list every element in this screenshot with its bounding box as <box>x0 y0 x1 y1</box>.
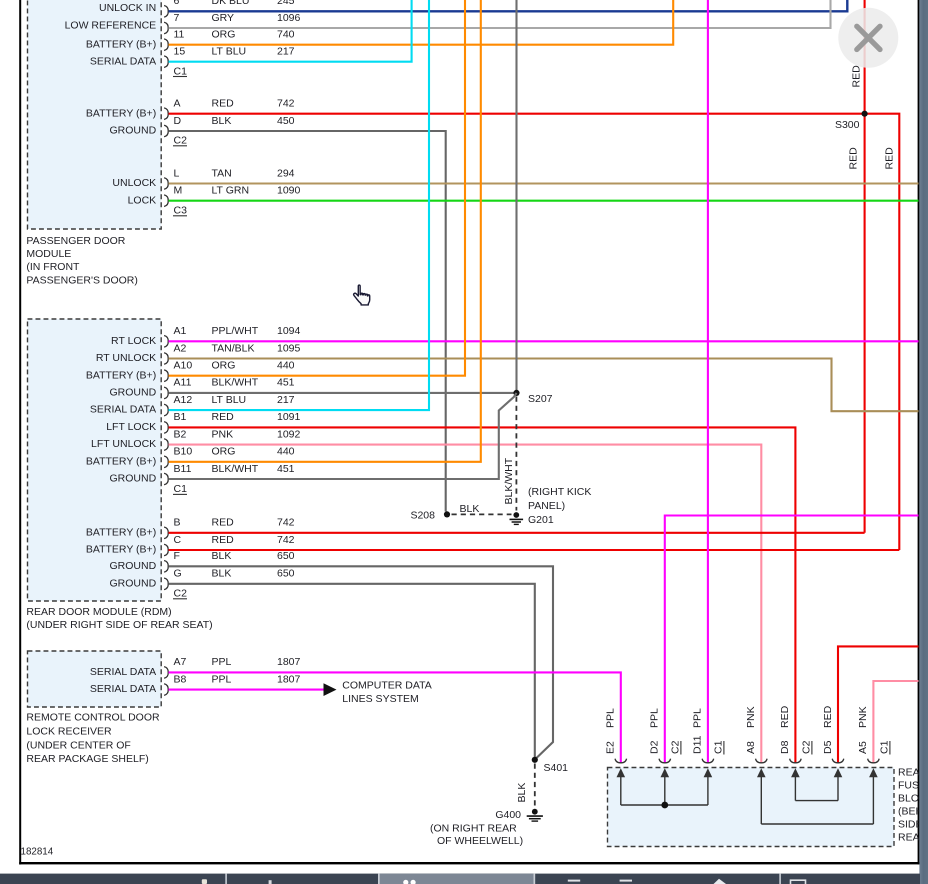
svg-text:F: F <box>174 550 180 562</box>
wire 742 RED: pin C to red vertical 2 <box>169 549 900 551</box>
svg-text:TAN/BLK: TAN/BLK <box>212 342 255 354</box>
wire PNK: from right page edge down to connector A5 <box>873 681 918 763</box>
junction dot on link bar at D2 <box>661 802 668 809</box>
pin bracket G <box>164 578 168 590</box>
remote control door lock receiver box <box>28 651 162 707</box>
wire 1807 PPL: A7 right then down to connector E2 <box>169 672 621 762</box>
svg-text:RED: RED <box>212 517 235 529</box>
svg-text:PASSENGER'S DOOR): PASSENGER'S DOOR) <box>26 274 137 286</box>
svg-text:PPL: PPL <box>649 708 661 728</box>
pin bracket B <box>164 527 168 539</box>
connector label C3 (PDM) <box>173 205 187 217</box>
svg-text:451: 451 <box>277 377 295 389</box>
connector entry D8 RED <box>790 759 802 763</box>
svg-text:1094: 1094 <box>277 325 301 337</box>
svg-text:A5: A5 <box>857 741 869 754</box>
svg-text:SERIAL DATA: SERIAL DATA <box>90 683 156 695</box>
wire RED: from right page edge down to connector D5 <box>838 646 919 762</box>
toolbar icon tops (cut off at bottom edge) <box>202 879 207 884</box>
wire 440 ORG: A10 right then up to top <box>169 0 466 376</box>
svg-text:PPL/WHT: PPL/WHT <box>212 325 259 337</box>
diagram page left border <box>19 0 21 865</box>
svg-text:(UNDER RIGHT SIDE OF REAR SEAT: (UNDER RIGHT SIDE OF REAR SEAT) <box>26 619 212 631</box>
wire 1094 PPL/WHT: A1 to right page edge <box>169 340 919 342</box>
svg-text:S208: S208 <box>410 510 435 522</box>
wire 740 ORG: pin 11 to top <box>169 0 674 45</box>
svg-text:440: 440 <box>277 446 295 458</box>
svg-text:450: 450 <box>277 115 295 127</box>
svg-text:PPL: PPL <box>212 673 232 685</box>
svg-text:GROUND: GROUND <box>110 473 157 485</box>
wire PPL vertical: from top edge down to connector D11 <box>707 0 709 763</box>
pin bracket B11 <box>164 473 168 485</box>
internal link bar E2-D2-D11 <box>621 804 708 806</box>
svg-text:SERIAL DATA: SERIAL DATA <box>90 55 156 67</box>
svg-text:6: 6 <box>174 0 180 7</box>
wire 1096 GRY: pin 7 to top <box>169 0 831 28</box>
diagram page bottom border <box>19 862 920 864</box>
svg-text:LOW REFERENCE: LOW REFERENCE <box>65 20 157 32</box>
svg-text:A: A <box>174 98 181 110</box>
svg-text:B: B <box>174 517 181 529</box>
wire 1807 PPL: B8 to computer data lines arrow <box>169 689 325 691</box>
svg-text:217: 217 <box>277 46 295 58</box>
wire BLK/WHT vertical from top to S207 <box>515 0 517 393</box>
pin bracket 6 <box>164 6 168 18</box>
svg-text:RED: RED <box>212 98 235 110</box>
arrow to A5 <box>872 776 874 825</box>
svg-text:E2: E2 <box>605 741 617 754</box>
svg-text:440: 440 <box>277 360 295 372</box>
wire 440 ORG: B10 right then up to top <box>169 0 481 462</box>
svg-text:A10: A10 <box>174 360 193 372</box>
svg-text:LT BLU: LT BLU <box>212 394 247 406</box>
svg-text:SERIAL DATA: SERIAL DATA <box>90 666 156 678</box>
svg-text:1095: 1095 <box>277 342 301 354</box>
pin bracket B1 <box>164 422 168 434</box>
connector label C1 (A5 group) <box>879 740 891 754</box>
svg-text:LT BLU: LT BLU <box>212 46 247 58</box>
svg-text:D5: D5 <box>822 740 834 754</box>
svg-text:MODULE: MODULE <box>26 248 71 260</box>
svg-text:C2: C2 <box>670 740 682 754</box>
svg-text:650: 650 <box>277 550 295 562</box>
pin bracket F <box>164 561 168 573</box>
svg-text:PPL: PPL <box>212 656 232 668</box>
svg-text:S300: S300 <box>835 119 860 131</box>
svg-text:PPL: PPL <box>692 708 704 728</box>
svg-text:COMPUTER DATA: COMPUTER DATA <box>342 679 431 691</box>
svg-text:B8: B8 <box>174 673 187 685</box>
svg-text:(UNDER CENTER OF: (UNDER CENTER OF <box>26 739 130 751</box>
pin bracket C <box>164 544 168 556</box>
connector label C2 (PDM) <box>173 135 187 147</box>
pin bracket B10 <box>164 456 168 468</box>
dashed BLK lead S208 to G201 <box>452 513 512 515</box>
svg-text:RED: RED <box>822 705 834 728</box>
svg-text:L: L <box>174 167 180 179</box>
svg-text:GROUND: GROUND <box>110 125 157 137</box>
splice S207 <box>513 390 519 396</box>
dashed BLK/WHT lead S207 to G201 <box>515 397 517 511</box>
connector label C1 (RDM) <box>173 483 187 495</box>
splice S208 <box>444 511 450 517</box>
svg-text:ORG: ORG <box>212 29 236 41</box>
svg-text:A2: A2 <box>174 342 187 354</box>
wire 650 BLK: pin G right, down to S401 <box>169 584 535 759</box>
svg-text:RED: RED <box>212 411 235 423</box>
internal link bar D8-D5 <box>795 800 838 802</box>
svg-text:RED: RED <box>884 147 896 170</box>
svg-text:PPL: PPL <box>605 708 617 728</box>
pin bracket M <box>164 195 168 207</box>
passenger door module box (connector C1/C2/C3) <box>28 0 162 229</box>
svg-text:B2: B2 <box>174 428 187 440</box>
svg-text:182814: 182814 <box>21 847 54 858</box>
svg-text:M: M <box>174 185 183 197</box>
svg-text:C2: C2 <box>801 740 813 754</box>
connector entry D2 PPL <box>659 759 671 763</box>
svg-text:BLK/WHT: BLK/WHT <box>212 377 259 389</box>
connector entry D5 RED <box>832 759 844 763</box>
svg-text:742: 742 <box>277 98 295 110</box>
svg-text:451: 451 <box>277 463 295 475</box>
svg-text:C1: C1 <box>174 483 188 495</box>
pin bracket A10 <box>164 370 168 382</box>
svg-text:B10: B10 <box>174 446 193 458</box>
arrow to D8 <box>794 776 796 801</box>
svg-text:D: D <box>174 115 182 127</box>
wire 1092 PNK: B2 right then down to connector A8 <box>169 445 762 763</box>
svg-text:G201: G201 <box>528 514 554 526</box>
svg-text:C2: C2 <box>174 135 188 147</box>
svg-text:ORG: ORG <box>212 446 236 458</box>
svg-text:LFT LOCK: LFT LOCK <box>106 421 156 433</box>
svg-text:1092: 1092 <box>277 428 301 440</box>
pin bracket A12 <box>164 404 168 416</box>
svg-text:G: G <box>174 568 182 580</box>
splice S401 <box>532 757 538 763</box>
svg-text:D2: D2 <box>649 740 661 754</box>
svg-text:SERIAL DATA: SERIAL DATA <box>90 404 156 416</box>
svg-text:GRY: GRY <box>212 12 235 24</box>
svg-text:11: 11 <box>174 29 185 41</box>
pin bracket 11 <box>164 39 168 51</box>
wire 742 RED: pin B to red vertical 1 <box>169 532 865 534</box>
svg-text:PNK: PNK <box>212 428 234 440</box>
svg-text:RED: RED <box>779 705 791 728</box>
svg-text:REAR PACKAGE SHELF): REAR PACKAGE SHELF) <box>26 753 148 765</box>
pin bracket 7 <box>164 22 168 34</box>
svg-text:C1: C1 <box>174 65 188 77</box>
rear fuse block box <box>608 768 895 847</box>
svg-text:BLK: BLK <box>516 783 528 803</box>
svg-text:SIDE: SIDE <box>898 819 923 831</box>
svg-text:BATTERY (B+): BATTERY (B+) <box>86 526 156 538</box>
svg-text:LFT UNLOCK: LFT UNLOCK <box>91 438 156 450</box>
svg-text:RT LOCK: RT LOCK <box>111 335 156 347</box>
svg-text:C2: C2 <box>174 588 188 600</box>
wire 451 BLK/WHT: B11 right, up, jog to S207 <box>169 393 517 479</box>
svg-text:RED: RED <box>851 65 863 88</box>
svg-text:C1: C1 <box>879 740 891 754</box>
svg-text:650: 650 <box>277 568 295 580</box>
wire RED: S300 right then down to C RED row <box>865 114 900 550</box>
svg-text:294: 294 <box>277 167 295 179</box>
arrow to D2 <box>664 776 666 806</box>
svg-text:BATTERY (B+): BATTERY (B+) <box>86 38 156 50</box>
svg-text:1091: 1091 <box>277 411 301 423</box>
svg-text:D8: D8 <box>779 740 791 754</box>
svg-text:UNLOCK IN: UNLOCK IN <box>99 2 156 14</box>
pin bracket A2 <box>164 353 168 365</box>
svg-text:BATTERY (B+): BATTERY (B+) <box>86 369 156 381</box>
svg-text:C1: C1 <box>713 740 725 754</box>
pin bracket B2 <box>164 439 168 451</box>
svg-text:S207: S207 <box>528 393 553 405</box>
connector entry E2 PPL <box>615 759 627 763</box>
wire 1095 TAN/BLK: A2 right, down, right to page edge <box>169 359 919 412</box>
ground G201 <box>510 512 524 524</box>
svg-text:1807: 1807 <box>277 656 301 668</box>
svg-text:LINES SYSTEM: LINES SYSTEM <box>342 693 418 705</box>
svg-text:G400: G400 <box>495 809 521 821</box>
svg-text:740: 740 <box>277 29 295 41</box>
wire 294 TAN: pin L to right page edge <box>169 182 919 184</box>
pin bracket A <box>164 108 168 120</box>
splice S300 <box>862 111 868 117</box>
ground G400 <box>527 809 543 821</box>
svg-text:PASSENGER DOOR: PASSENGER DOOR <box>26 235 125 247</box>
connector label C2 (left group) <box>670 740 682 754</box>
svg-text:DK BLU: DK BLU <box>212 0 250 7</box>
wire 1091 RED: B1 right then down to connector D8 <box>169 427 796 762</box>
svg-text:LT GRN: LT GRN <box>212 185 250 197</box>
svg-text:BLK: BLK <box>212 568 232 580</box>
pin bracket A1 <box>164 336 168 348</box>
close button <box>838 8 898 68</box>
svg-text:BATTERY (B+): BATTERY (B+) <box>86 544 156 556</box>
pin bracket A7 <box>164 667 168 679</box>
svg-text:PNK: PNK <box>745 706 757 728</box>
svg-text:S401: S401 <box>544 762 569 774</box>
svg-text:RED: RED <box>848 147 860 170</box>
svg-text:BLK/WHT: BLK/WHT <box>212 463 259 475</box>
svg-text:PANEL): PANEL) <box>528 500 565 512</box>
svg-text:ORG: ORG <box>212 360 236 372</box>
svg-text:TAN: TAN <box>212 167 232 179</box>
svg-text:C3: C3 <box>174 205 188 217</box>
diagram page right border <box>918 0 920 864</box>
svg-text:GROUND: GROUND <box>110 577 157 589</box>
svg-text:D11: D11 <box>692 735 704 754</box>
mouse hand cursor <box>354 285 370 305</box>
wire PPL: from right page edge down to connector D2 <box>665 516 919 763</box>
connector label C2 (D8 group) <box>801 740 813 754</box>
svg-text:BLK/WHT: BLK/WHT <box>503 457 515 504</box>
svg-text:A11: A11 <box>174 377 192 389</box>
svg-text:(IN FRONT: (IN FRONT <box>26 261 80 273</box>
rear door module box <box>28 319 162 601</box>
bottom toolbar <box>0 874 920 884</box>
toolbar dividers <box>225 874 227 884</box>
svg-text:PNK: PNK <box>857 706 869 728</box>
wire 742 RED: pin A to splice S300 <box>169 113 865 115</box>
svg-text:1090: 1090 <box>277 185 301 197</box>
wire 217 LT BLU: A12 right then up to top <box>169 0 430 410</box>
svg-text:742: 742 <box>277 534 295 546</box>
svg-text:LOCK RECEIVER: LOCK RECEIVER <box>26 725 112 737</box>
toolbar highlighted segment <box>380 874 534 884</box>
svg-text:B1: B1 <box>174 411 187 423</box>
connector entry A8 PNK <box>756 759 768 763</box>
svg-text:LOCK: LOCK <box>128 194 157 206</box>
pin bracket B8 <box>164 684 168 696</box>
svg-text:RED: RED <box>212 534 235 546</box>
wire 245 DK BLU: pin 6 to top <box>169 0 848 11</box>
svg-text:(RIGHT KICK: (RIGHT KICK <box>528 486 591 498</box>
pin bracket 15 <box>164 56 168 68</box>
wire 1090 LT GRN: pin M to right page edge <box>169 200 919 202</box>
pin bracket A11 <box>164 387 168 399</box>
svg-text:1096: 1096 <box>277 12 301 24</box>
arrow to A8 <box>760 776 762 825</box>
svg-text:742: 742 <box>277 517 295 529</box>
connector label C1 (D11 group) <box>713 740 725 754</box>
wire 451 BLK/WHT: A11 right to splice S207, vertical from top <box>169 392 517 394</box>
svg-text:REAR DOOR MODULE (RDM): REAR DOOR MODULE (RDM) <box>26 606 171 618</box>
svg-text:BLK: BLK <box>460 503 480 515</box>
svg-text:(ON RIGHT REAR: (ON RIGHT REAR <box>430 823 517 835</box>
svg-text:C: C <box>174 534 182 546</box>
wire 450 BLK: pin D right, down to splice S208 <box>169 131 446 512</box>
svg-text:UNLOCK: UNLOCK <box>112 177 156 189</box>
svg-text:OF WHEELWELL): OF WHEELWELL) <box>437 835 523 847</box>
svg-text:217: 217 <box>277 394 295 406</box>
wire 650 BLK: pin F right, down, jog to S401 <box>169 566 554 759</box>
internal link bar A8-A5 <box>761 823 873 825</box>
svg-text:RT UNLOCK: RT UNLOCK <box>96 352 156 364</box>
connector entry D11 PPL <box>702 759 714 763</box>
svg-text:BATTERY (B+): BATTERY (B+) <box>86 455 156 467</box>
svg-text:A1: A1 <box>174 325 187 337</box>
svg-text:1807: 1807 <box>277 673 301 685</box>
svg-text:7: 7 <box>174 12 180 24</box>
connector label C2 (RDM) <box>173 588 187 600</box>
svg-text:GROUND: GROUND <box>110 560 157 572</box>
svg-text:B11: B11 <box>174 463 192 475</box>
connector label C1 (PDM) <box>173 65 187 77</box>
wire 217 LT BLU: pin 15 to top <box>169 0 412 62</box>
wire RED vertical 1: top through S300 down to B RED row <box>864 0 866 533</box>
arrow to E2 <box>620 776 622 806</box>
svg-text:245: 245 <box>277 0 295 7</box>
svg-text:A7: A7 <box>174 656 187 668</box>
svg-text:REMOTE CONTROL DOOR: REMOTE CONTROL DOOR <box>26 712 160 724</box>
svg-text:GROUND: GROUND <box>110 387 157 399</box>
dashed BLK lead S401 to G400 <box>534 764 536 809</box>
pin bracket L <box>164 178 168 190</box>
off-page arrow to computer data lines system <box>324 683 337 696</box>
svg-text:15: 15 <box>174 46 186 58</box>
svg-text:BLK: BLK <box>212 550 232 562</box>
arrow to D11 <box>707 776 709 806</box>
svg-text:A12: A12 <box>174 394 193 406</box>
svg-text:BATTERY (B+): BATTERY (B+) <box>86 107 156 119</box>
pin bracket D <box>164 125 168 137</box>
svg-text:A8: A8 <box>745 741 757 754</box>
arrow to D5 <box>837 776 839 801</box>
svg-text:BLK: BLK <box>212 115 232 127</box>
connector entry A5 PNK <box>868 759 880 763</box>
